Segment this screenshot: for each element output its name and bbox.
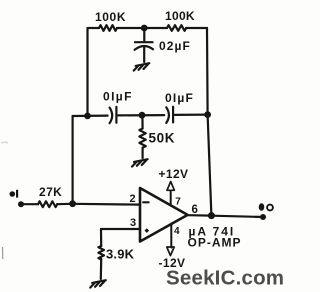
svg-text:3.9K: 3.9K <box>106 247 135 262</box>
resistor R5 3.9K <box>98 246 104 260</box>
left rail mid: corner down to input wire <box>71 116 73 204</box>
capacitor C1 0.2uF lead <box>143 28 145 41</box>
wire input to R3 <box>21 203 38 205</box>
op-amp pin 7 arrow (+12V) <box>167 182 174 191</box>
wire op-amp pin 3 <box>101 228 140 230</box>
svg-text:3: 3 <box>130 217 136 229</box>
node junction middle-left (rail tap) <box>84 113 91 120</box>
svg-text:0IµF: 0IµF <box>103 90 133 104</box>
op-amp pin 7 line <box>170 191 172 206</box>
resistor R2 100K <box>167 25 186 31</box>
wire R2 to top-right corner <box>186 27 207 29</box>
right rail <box>207 28 211 216</box>
scan speck left edge <box>2 247 4 259</box>
node junction middle-right on rail <box>204 111 211 118</box>
wire R1 to R2 <box>117 27 167 29</box>
svg-text:4: 4 <box>174 226 180 237</box>
svg-text:0IµF: 0IµF <box>165 91 194 105</box>
ground under C1 <box>134 63 150 70</box>
wire C3 to right rail <box>175 113 208 116</box>
node junction output <box>208 212 215 219</box>
svg-text:SeekIC.com: SeekIC.com <box>166 267 284 290</box>
wire middle left segment <box>73 114 108 117</box>
svg-text:2: 2 <box>130 193 136 205</box>
ground under 3.9K <box>90 280 106 287</box>
op-amp pin 4 arrow (-12V) <box>167 247 174 256</box>
resistor R4 50K bottom lead <box>142 148 144 158</box>
capacitor C1 bottom lead <box>143 47 145 63</box>
svg-text:7: 7 <box>175 197 181 208</box>
ground under 50K <box>132 159 148 166</box>
svg-text:50K: 50K <box>149 131 176 146</box>
svg-text:02µF: 02µF <box>159 39 191 53</box>
resistor R4 50K body <box>139 129 145 148</box>
svg-text:+12V: +12V <box>159 167 189 181</box>
wire pin3 corner down to R5 <box>100 229 102 246</box>
op-amp minus sign <box>143 201 148 203</box>
node junction top (C1 tap) <box>141 25 148 32</box>
svg-text:100K: 100K <box>95 10 126 24</box>
svg-text:100K: 100K <box>165 9 195 23</box>
op-amp pin 4 line <box>170 224 172 248</box>
wire op-amp output to node <box>188 214 212 217</box>
resistor R4 50K lead from node <box>141 115 143 128</box>
wire C2 to C3 <box>118 114 164 117</box>
output terminal e0 <box>260 214 266 220</box>
resistor R5 bottom lead <box>100 259 103 279</box>
wire node to output terminal <box>211 216 263 217</box>
node junction input <box>69 200 76 207</box>
input terminal e1 <box>18 201 24 207</box>
capacitor C3 0.1uF <box>166 107 173 123</box>
node label e0 <box>259 203 273 210</box>
wire top-left corner: left rail down from top wire <box>88 28 100 116</box>
svg-text:OP-AMP: OP-AMP <box>188 236 242 250</box>
op-amp U1 triangle <box>140 188 188 242</box>
wire node to op-amp pin 2 <box>73 203 140 206</box>
svg-text:6: 6 <box>192 204 198 216</box>
capacitor C1 0.2uF plates <box>135 42 153 50</box>
wire R3 to node <box>57 203 72 206</box>
scan smudge left <box>1 141 8 144</box>
op-amp plus sign <box>145 228 150 233</box>
resistor R1 100K <box>99 25 117 31</box>
capacitor C2 0.1uF <box>110 107 117 123</box>
node label e1 <box>10 190 19 198</box>
node junction middle (50K tap) <box>139 112 146 119</box>
resistor R3 27K <box>38 201 57 207</box>
svg-text:27K: 27K <box>39 185 62 199</box>
